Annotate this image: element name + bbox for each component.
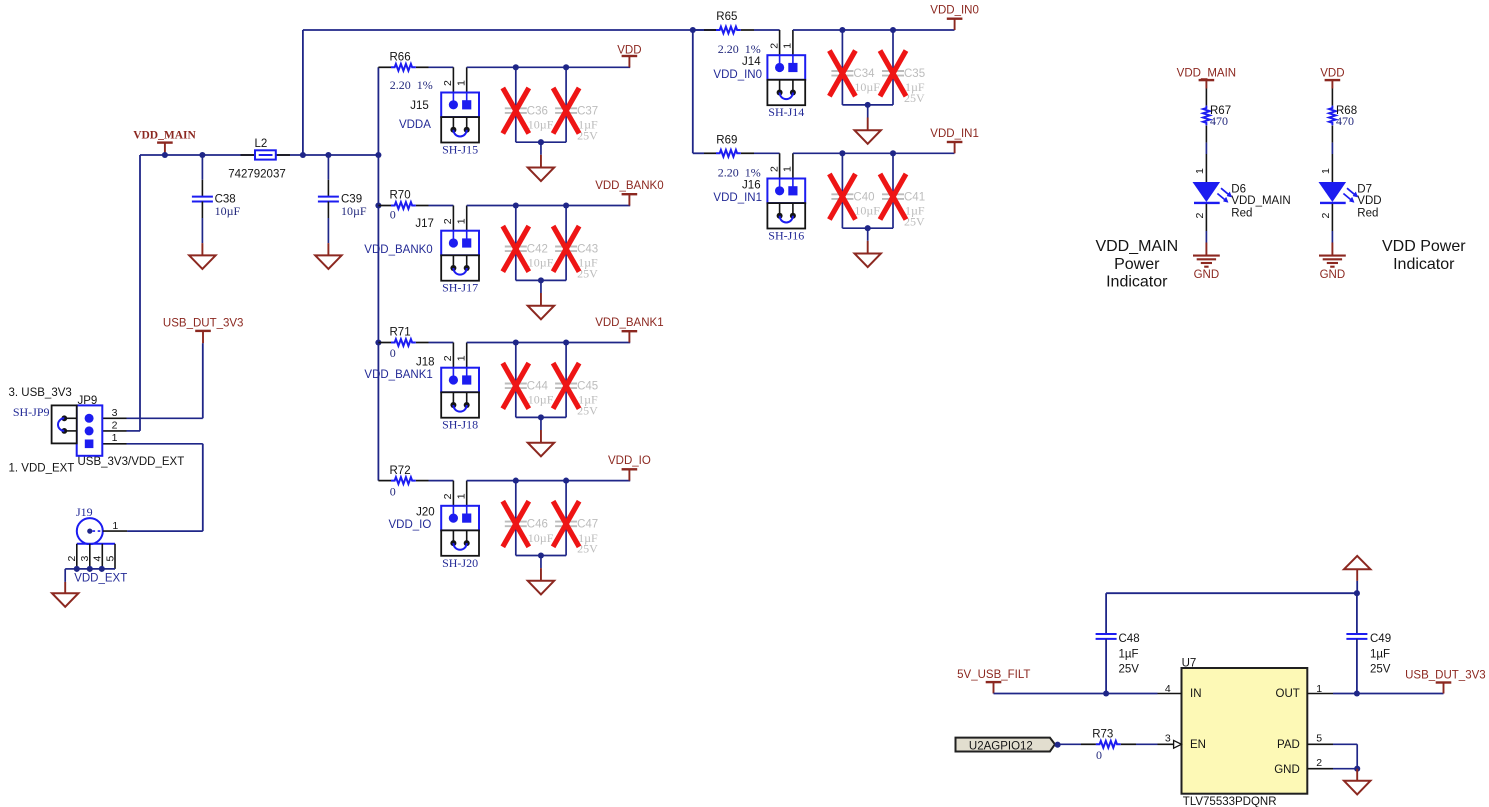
wire vertical bus J15..J20 [377,67,379,480]
resistor R70 leads [378,205,391,207]
svg-text:0: 0 [390,484,396,498]
wire R73 to EN [1136,743,1158,745]
wire joining C40 and C41 bottoms [842,227,893,229]
svg-text:TLV75533PDQNR: TLV75533PDQNR [1183,796,1277,807]
capacitor C39 bottom lead [327,202,329,219]
svg-text:1: 1 [1320,168,1332,174]
svg-text:VDD_MAIN: VDD_MAIN [1231,195,1290,207]
wire left drop to JP9 pin 2 [139,155,141,431]
wire R68 to D7 [1331,126,1333,143]
svg-text:2.20 1%: 2.20 1% [718,166,761,180]
shunt SH-J18 box [441,392,479,417]
resistor R67 top lead [1205,89,1207,106]
capacitor C36 (not fitted) [505,107,527,109]
ground [189,255,215,269]
shunt SH-J17 box [441,255,479,280]
wire OUT to USB_DUT_3V3 [1333,693,1444,695]
svg-text:10µF: 10µF [341,204,367,218]
svg-text:VDD_IO: VDD_IO [388,519,431,531]
junction [199,152,205,158]
power symbol (up arrow) [1344,556,1370,569]
svg-text:5: 5 [104,556,116,562]
svg-text:2: 2 [442,355,454,361]
wire riser to top feed rail [302,30,304,155]
svg-text:2: 2 [442,80,454,86]
connector J16 pin 2 lead [779,153,781,178]
wire to ground [540,556,542,569]
junction [375,339,381,345]
svg-text:GND: GND [1194,269,1220,281]
capacitor C49 top lead [1356,593,1358,633]
svg-text:PAD: PAD [1277,739,1300,751]
not-fitted cross over C44 [503,363,529,409]
wire J16 pin 1 to VDD_IN1 [793,152,955,154]
wire U2AGPIO12 to R73 [1058,743,1081,745]
U7 pin 1 lead [1307,693,1333,695]
svg-text:USB_DUT_3V3: USB_DUT_3V3 [1405,669,1486,681]
wire to ground [540,142,542,155]
svg-text:0: 0 [390,207,396,221]
resistor R68 top lead [1331,89,1333,106]
resistor R72 [391,477,416,484]
capacitor C45 (not fitted) [555,383,577,385]
svg-text:USB_DUT_3V3: USB_DUT_3V3 [163,318,244,330]
svg-text:2: 2 [1316,757,1322,769]
svg-text:470: 470 [1336,114,1354,128]
svg-text:Red: Red [1357,207,1378,219]
junction [99,566,105,572]
svg-text:1: 1 [1194,168,1206,174]
ground [855,254,881,268]
svg-text:Red: Red [1231,207,1252,219]
shunt SH-JP9 pins and link [64,417,76,419]
capacitor C36 (not fitted) leads [515,67,517,108]
svg-text:10µF: 10µF [528,118,554,132]
capacitor C42 (not fitted) [505,246,527,248]
junction [538,139,544,145]
wire C48 top rail [1106,592,1357,594]
port U2AGPIO12 [956,738,1055,752]
ground [528,168,554,182]
svg-text:U7: U7 [1182,658,1197,670]
junction [563,64,569,70]
svg-text:VDD_BANK1: VDD_BANK1 [595,317,663,329]
svg-text:2.20 1%: 2.20 1% [390,78,433,92]
connector J19 pin 1 lead [103,530,127,532]
svg-text:C49: C49 [1370,633,1391,645]
wire shield to ground [65,568,74,570]
svg-text:GND: GND [1320,269,1346,281]
capacitor C40 (not fitted) [831,193,853,195]
svg-text:25V: 25V [1370,664,1391,676]
svg-text:J17: J17 [415,218,434,230]
svg-text:J16: J16 [742,179,761,191]
shunt SH-J14 box [767,80,805,105]
wire J15 pin 1 to VDD [467,66,631,68]
svg-text:2: 2 [1194,213,1206,219]
resistor R69 leads [693,152,704,154]
svg-text:1: 1 [456,218,468,224]
junction [839,150,845,156]
svg-text:10µF: 10µF [215,204,241,218]
connector J16 pin 1 lead [792,153,794,178]
junction [513,478,519,484]
ground [52,593,78,607]
not-fitted cross over C40 [829,174,855,220]
svg-text:D6: D6 [1231,183,1246,195]
svg-text:VDD_IN1: VDD_IN1 [713,192,762,204]
wire PAD to GND node [1333,743,1357,745]
shunt SH-J16 pins and link [779,203,781,216]
svg-text:10µF: 10µF [854,204,880,218]
junction [513,64,519,70]
connector J20 pin 1 lead [466,481,468,506]
capacitor C40 (not fitted) leads [841,153,843,194]
svg-text:VDD_IO: VDD_IO [608,455,651,467]
svg-text:C43: C43 [577,244,598,256]
wire JP9 pin 1 to J19 pin 1 [127,443,203,445]
capacitor C41 (not fitted) [882,193,904,195]
junction [563,339,569,345]
IC U7 body [1182,668,1308,794]
svg-text:VDD: VDD [617,44,641,56]
LED D7 [1319,182,1347,202]
svg-text:C47: C47 [577,519,598,531]
svg-text:470: 470 [1210,114,1228,128]
wire R71 to J18 pin 2 [429,342,454,344]
not-fitted cross over C41 [880,174,906,220]
junction [538,277,544,283]
svg-text:J20: J20 [416,507,435,519]
wire joining C44 and C45 bottoms [516,416,566,418]
svg-text:1: 1 [456,355,468,361]
svg-text:VDD PowerIndicator: VDD PowerIndicator [1382,238,1466,273]
svg-text:SH-J16: SH-J16 [768,229,804,243]
resistor R70 [391,202,416,209]
resistor R73 leads [1081,743,1096,745]
svg-text:J15: J15 [410,100,429,112]
not-fitted cross over C45 [553,363,579,409]
capacitor C43 (not fitted) leads [565,206,567,247]
svg-text:OUT: OUT [1276,688,1300,700]
capacitor C35 (not fitted) leads [892,30,894,71]
resistor R68 [1329,106,1336,126]
capacitor C39 top lead [327,155,329,180]
capacitor C48 bottom lead [1105,639,1107,694]
svg-text:SH-J15: SH-J15 [442,143,478,157]
junction [74,566,80,572]
junction [563,478,569,484]
ground [1344,781,1370,795]
resistor R66 leads [378,66,391,68]
resistor R71 leads [378,342,391,344]
junction [87,566,93,572]
wire J18 pin 1 to VDD_BANK1 [467,342,631,344]
connector J18 pin 2 lead [452,343,454,368]
connector J14 pin 2 lead [779,30,781,55]
connector J19 shield pins [77,543,115,545]
junction [865,225,871,231]
svg-text:C46: C46 [527,519,548,531]
svg-text:D7: D7 [1357,183,1372,195]
svg-text:C48: C48 [1119,633,1140,645]
shunt SH-J18 pins and link [452,392,454,405]
svg-text:10µF: 10µF [528,531,554,545]
U7 pin 3 enable arrow [1174,740,1182,748]
capacitor C34 (not fitted) leads [841,30,843,71]
shunt SH-J15 box [441,117,479,142]
inductor L2 [255,150,276,159]
wire USB_DUT_3V3 to JP9 pin 3 [202,343,204,418]
svg-text:2: 2 [1320,213,1332,219]
capacitor C47 (not fitted) [555,521,577,523]
ground [528,443,554,457]
resistor R73 [1096,741,1121,748]
wire drop R65 node to R69 [692,30,694,153]
shunt SH-J14 pins and link [779,80,781,93]
svg-text:VDD_BANK1: VDD_BANK1 [364,369,432,381]
svg-text:2.20 1%: 2.20 1% [718,42,761,56]
capacitor C38 [192,196,213,198]
junction [839,27,845,33]
capacitor C38 top lead [201,155,203,180]
wire R70 to J17 pin 2 [429,205,454,207]
svg-text:R69: R69 [716,134,737,146]
svg-text:1: 1 [456,493,468,499]
svg-text:1: 1 [112,432,118,444]
junction [513,202,519,208]
not-fitted cross over C46 [503,501,529,547]
capacitor C49 [1346,633,1367,635]
junction [1354,590,1360,596]
svg-text:USB_3V3/VDD_EXT: USB_3V3/VDD_EXT [78,456,185,468]
wire to ground [867,228,869,241]
svg-text:R71: R71 [390,327,411,339]
wire D6 to GND [1205,204,1207,231]
svg-text:C42: C42 [527,244,548,256]
resistor R66 [391,64,416,71]
svg-text:2: 2 [442,493,454,499]
svg-text:10µF: 10µF [528,393,554,407]
U7 pin 2 lead [1307,768,1333,770]
svg-text:R70: R70 [390,190,411,202]
wire joining C34 and C35 bottoms [842,104,893,106]
svg-text:C45: C45 [577,381,598,393]
wire JP9 pin 2 riser [127,430,141,432]
svg-text:1µF: 1µF [1370,649,1390,661]
shunt SH-J16 box [767,203,805,228]
wire top feed rail to R65 [303,29,716,31]
wire J20 pin 1 to VDD_IO [467,480,631,482]
svg-text:VDD_EXT: VDD_EXT [74,573,127,585]
shunt SH-JP9 box [52,405,77,443]
capacitor C48 [1096,633,1117,635]
capacitor C35 (not fitted) [882,70,904,72]
connector J17 body [441,231,479,256]
svg-text:2: 2 [768,166,780,172]
not-fitted cross over C37 [553,88,579,134]
wire J14 pin 1 to VDD_IN0 [793,29,955,31]
svg-text:1µF: 1µF [1119,649,1139,661]
svg-text:VDD: VDD [1357,195,1381,207]
junction [538,552,544,558]
connector J15 pin 1 lead [466,67,468,92]
not-fitted cross over C36 [503,88,529,134]
connector J15 pin 2 lead [452,67,454,92]
junction [300,152,306,158]
ground [855,130,881,144]
svg-text:3: 3 [112,407,118,419]
resistor R65 leads [693,29,704,31]
svg-text:2: 2 [112,420,118,432]
ground [528,581,554,595]
junction [375,152,381,158]
svg-text:0: 0 [390,346,396,360]
svg-text:VDD_BANK0: VDD_BANK0 [595,180,663,192]
svg-text:SH-J20: SH-J20 [442,556,478,570]
junction [690,27,696,33]
wire joining C36 and C37 bottoms [516,141,566,143]
connector JP9 body [77,405,103,455]
U7 pin 3 lead [1158,743,1174,745]
svg-text:3. USB_3V3: 3. USB_3V3 [9,387,72,399]
junction [375,202,381,208]
wire 5V_USB_FILT to IN [994,693,1158,695]
junction [538,414,544,420]
shunt SH-J20 pins and link [452,530,454,543]
U7 pin 4 lead [1158,693,1182,695]
svg-text:VDD: VDD [1320,68,1344,80]
connector JP9 pin leads [94,417,127,419]
connector J19 body [77,518,103,544]
wire to ground [540,280,542,293]
svg-text:5: 5 [1316,732,1322,744]
LED D6 light arrows [1221,188,1229,195]
svg-text:R65: R65 [716,11,737,23]
capacitor C47 (not fitted) leads [565,481,567,522]
svg-text:VDD_MAIN: VDD_MAIN [133,129,196,141]
wire R66 to J15 pin 2 [429,66,454,68]
svg-text:10µF: 10µF [528,256,554,270]
not-fitted cross over C43 [553,226,579,272]
connector J18 pin 1 lead [466,343,468,368]
capacitor C48 top lead [1105,593,1107,633]
connector J17 pin 1 lead [466,206,468,231]
wire to ground [867,105,869,118]
capacitor C45 (not fitted) leads [565,343,567,384]
svg-text:VDD_BANK0: VDD_BANK0 [364,244,432,256]
svg-text:742792037: 742792037 [228,168,286,180]
svg-text:GND: GND [1274,764,1300,776]
junction [890,27,896,33]
wire R65 to J14 pin 2 [754,29,780,31]
svg-text:VDD_IN0: VDD_IN0 [713,69,762,81]
svg-text:1. VDD_EXT: 1. VDD_EXT [9,463,75,475]
svg-text:VDDA: VDDA [399,119,431,131]
not-fitted cross over C34 [829,51,855,97]
svg-text:R73: R73 [1092,728,1113,740]
svg-text:2: 2 [768,43,780,49]
wire R72 to J20 pin 2 [429,480,454,482]
shunt SH-J17 pins and link [452,255,454,268]
shunt SH-J20 box [441,530,479,555]
ground [528,306,554,320]
svg-text:U2AGPIO12: U2AGPIO12 [969,740,1033,752]
wire J17 pin 1 to VDD_BANK0 [467,205,631,207]
capacitor C44 (not fitted) [505,383,527,385]
ground GND [1193,255,1220,257]
svg-text:VDD_MAIN: VDD_MAIN [1177,68,1236,80]
svg-text:C35: C35 [904,68,925,80]
capacitor C37 (not fitted) leads [565,67,567,108]
junction [1055,742,1061,748]
resistor R67 [1203,106,1210,126]
svg-text:VDD_IN1: VDD_IN1 [930,128,979,140]
LED D6 [1193,182,1221,202]
svg-text:5V_USB_FILT: 5V_USB_FILT [957,669,1030,681]
junction [325,152,331,158]
wire to ground [540,417,542,430]
ground [315,255,341,269]
svg-text:1: 1 [782,166,794,172]
not-fitted cross over C42 [503,226,529,272]
svg-text:J19: J19 [76,505,93,519]
capacitor C42 (not fitted) leads [515,206,517,247]
not-fitted cross over C35 [880,51,906,97]
resistor R69 [716,150,741,157]
svg-text:2: 2 [66,556,78,562]
shunt SH-J15 pins and link [452,117,454,130]
svg-text:1: 1 [456,80,468,86]
connector J16 body [767,179,805,204]
svg-text:1: 1 [1316,683,1322,695]
svg-text:4: 4 [1165,683,1171,695]
wire VDD_MAIN rail [140,154,378,156]
svg-text:C44: C44 [527,381,549,393]
svg-text:3: 3 [1165,732,1171,744]
svg-text:IN: IN [1190,688,1202,700]
capacitor C34 (not fitted) [831,70,853,72]
junction [513,339,519,345]
ground GND [1319,255,1346,257]
svg-text:R66: R66 [390,52,411,64]
junction [563,202,569,208]
capacitor C39 [318,196,339,198]
junction [1354,690,1360,696]
capacitor C41 (not fitted) leads [892,153,894,194]
wire joining C46 and C47 bottoms [516,555,566,557]
U7 pin 5 lead [1307,743,1333,745]
junction [1103,690,1109,696]
wire D7 to GND [1331,204,1333,231]
svg-text:SH-JP9: SH-JP9 [13,405,50,419]
capacitor C49 bottom lead [1356,639,1358,694]
junction [1354,766,1360,772]
connector J15 body [441,93,479,118]
capacitor C46 (not fitted) [505,521,527,523]
wire R69 to J16 pin 2 [754,152,780,154]
capacitor C46 (not fitted) leads [515,481,517,522]
connector J14 body [767,55,805,80]
wire GND pin to ground [1333,768,1357,770]
svg-text:J14: J14 [742,56,761,68]
resistor R71 [391,339,416,346]
svg-text:VDD_IN0: VDD_IN0 [930,5,979,17]
connector J18 body [441,368,479,393]
connector J20 pin 2 lead [452,481,454,506]
junction [890,150,896,156]
svg-text:4: 4 [92,556,104,562]
